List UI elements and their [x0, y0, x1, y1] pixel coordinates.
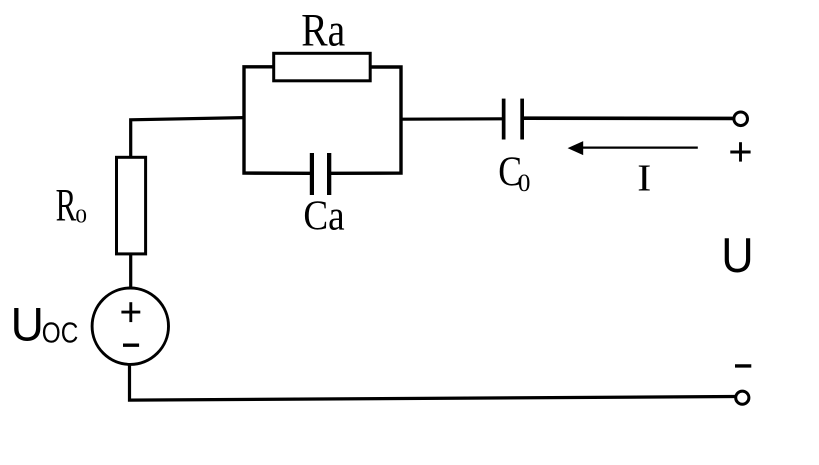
wire R0 top to node A [131, 118, 244, 158]
svg-text:R: R [56, 179, 77, 231]
terminal node plus [734, 112, 748, 126]
svg-text:U: U [721, 229, 753, 283]
polarity minus of source [123, 344, 139, 347]
label plus terminal [730, 142, 750, 161]
wire right side of parallel network [331, 67, 401, 173]
wire node A to parallel network [244, 67, 310, 174]
wire source bottom to ground rail [130, 363, 736, 400]
wire parallel network to C0 [401, 117, 503, 121]
capacitor C0 [502, 99, 524, 140]
svg-text:Ra: Ra [301, 5, 345, 56]
svg-text:0: 0 [75, 206, 87, 227]
terminal node minus [736, 391, 749, 404]
svg-text:Ca: Ca [303, 192, 344, 239]
capacitor Ca [310, 153, 332, 195]
svg-text:U: U [11, 298, 44, 351]
resistor R0 [117, 157, 146, 254]
voltage source U_oc [92, 288, 168, 364]
wire C0 to plus terminal [524, 116, 734, 120]
polarity plus of source [121, 302, 140, 322]
label minus terminal [735, 364, 751, 367]
svg-text:0: 0 [518, 168, 530, 197]
current arrow I [568, 141, 698, 155]
wire R0 bottom to source [129, 254, 132, 290]
svg-text:OC: OC [42, 317, 79, 349]
svg-text:I: I [637, 158, 651, 200]
resistor Ra [274, 53, 371, 81]
